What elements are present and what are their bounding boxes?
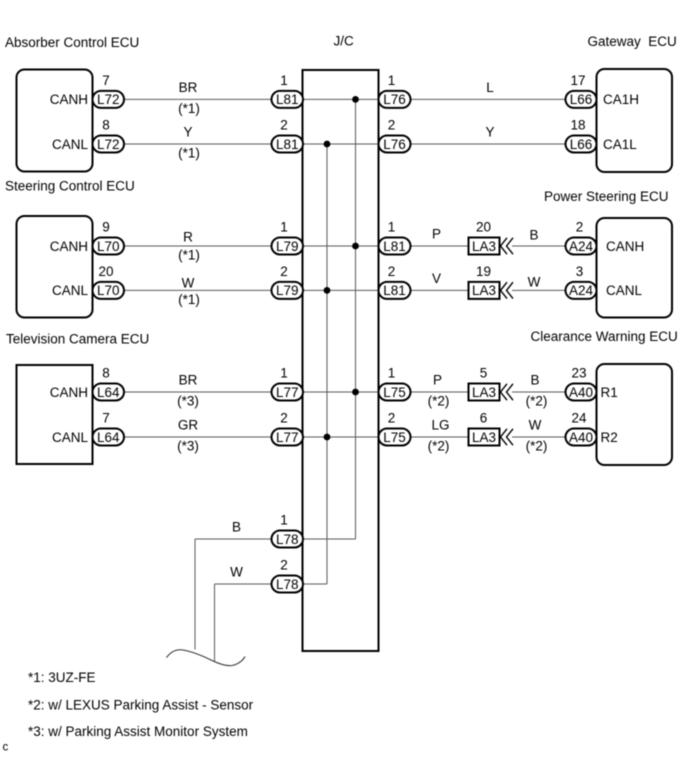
connector L81 pin 2 (J/C right) xyxy=(379,282,411,299)
svg-text:*1: 3UZ-FE: *1: 3UZ-FE xyxy=(28,670,96,685)
svg-text:L77: L77 xyxy=(276,385,299,400)
wire B: LA3-5 to Clearance A40-23 xyxy=(512,391,566,393)
svg-text:CANL: CANL xyxy=(52,430,89,445)
wire BR: Absorber L72-7 to J/C L81-1 xyxy=(124,98,272,100)
svg-text:CANL: CANL xyxy=(52,137,89,152)
ECU box: Clearance Warning ECU xyxy=(597,364,673,465)
wire B: branch to J/C L78-1 xyxy=(195,538,272,540)
svg-text:B: B xyxy=(529,228,538,243)
ECU box: Power Steering ECU xyxy=(597,218,673,318)
connector L72 pin 7 xyxy=(93,91,125,108)
svg-text:CA1L: CA1L xyxy=(603,137,637,152)
svg-text:R1: R1 xyxy=(601,385,618,400)
svg-text:*3: w/ Parking Assist Monitor: *3: w/ Parking Assist Monitor System xyxy=(28,724,248,739)
svg-text:B: B xyxy=(232,520,241,535)
connector LA3 pin 20 with chevron xyxy=(469,238,500,255)
wire W: branch to J/C L78-2 xyxy=(215,583,272,585)
svg-text:1: 1 xyxy=(280,73,288,88)
ECU box: Television Camera ECU xyxy=(17,365,93,464)
svg-text:L79: L79 xyxy=(276,239,299,254)
svg-text:R: R xyxy=(183,230,193,245)
svg-text:8: 8 xyxy=(102,366,110,381)
svg-text:L79: L79 xyxy=(276,283,299,298)
wire: CANH bus line inside J/C xyxy=(355,99,357,539)
node: CANH junction row 1 xyxy=(352,96,359,103)
wire: J/C internal row 1 CANH xyxy=(303,98,379,100)
svg-text:2: 2 xyxy=(280,264,288,279)
svg-text:(*2): (*2) xyxy=(526,394,548,409)
connector L75 pin 2 (J/C right) xyxy=(379,429,411,446)
svg-text:(*1): (*1) xyxy=(178,248,200,263)
svg-text:1: 1 xyxy=(280,366,288,381)
svg-text:P: P xyxy=(432,227,441,242)
svg-text:19: 19 xyxy=(476,264,491,279)
wire P: J/C L75-1 to LA3-5 xyxy=(411,391,469,393)
wire P: J/C L81-1 to LA3-20 xyxy=(411,245,469,247)
svg-text:L81: L81 xyxy=(276,137,299,152)
svg-text:2: 2 xyxy=(388,118,396,133)
svg-text:c: c xyxy=(3,742,9,754)
svg-text:1: 1 xyxy=(388,220,396,235)
wire BR: TV Camera L64-8 to J/C L77-1 xyxy=(124,391,272,393)
wire L: J/C L76-1 to Gateway L66-17 xyxy=(411,98,566,100)
svg-text:LA3: LA3 xyxy=(472,430,496,445)
svg-text:(*1): (*1) xyxy=(178,292,200,307)
svg-text:(*1): (*1) xyxy=(178,146,200,161)
svg-text:9: 9 xyxy=(102,220,110,235)
svg-text:1: 1 xyxy=(280,220,288,235)
svg-text:W: W xyxy=(182,275,195,290)
svg-text:(*3): (*3) xyxy=(177,394,199,409)
svg-text:2: 2 xyxy=(280,118,288,133)
wire Y: J/C L76-2 to Gateway L66-18 xyxy=(411,143,566,145)
ECU box: Gateway ECU xyxy=(597,69,673,172)
svg-text:L64: L64 xyxy=(97,385,120,400)
node: CANL junction row 4 xyxy=(324,287,331,294)
connector L81 pin 2 (J/C left) xyxy=(272,136,304,153)
wire Y: Absorber L72-8 to J/C L81-2 xyxy=(124,143,272,145)
svg-text:Clearance Warning ECU: Clearance Warning ECU xyxy=(531,329,678,344)
svg-text:LA3: LA3 xyxy=(472,239,496,254)
svg-text:2: 2 xyxy=(576,220,584,235)
svg-text:GR: GR xyxy=(178,418,199,433)
wire: off-page continuation wave xyxy=(167,650,246,666)
wire: J/C internal row 6 CANL xyxy=(303,436,379,438)
svg-text:(*2): (*2) xyxy=(526,439,548,454)
wire: B branch vertical drop xyxy=(194,539,196,650)
connector A40 pin 24 xyxy=(566,429,597,446)
junction connector J/C box xyxy=(303,70,379,651)
svg-text:LG: LG xyxy=(431,418,449,433)
svg-text:CANL: CANL xyxy=(52,283,89,298)
node: CANH junction row 5 xyxy=(352,389,359,396)
connector L70 pin 9 xyxy=(93,238,125,255)
wire W: Steering L70-20 to J/C L79-2 xyxy=(124,289,272,291)
svg-text:2: 2 xyxy=(388,264,396,279)
node: CANL junction row 6 xyxy=(324,434,331,441)
svg-text:L70: L70 xyxy=(97,239,120,254)
wire: J/C internal L78-2 to CANL bus xyxy=(303,583,327,585)
ECU box: Absorber Control ECU xyxy=(17,70,93,172)
wire B: LA3-20 to Power Steering A24-2 xyxy=(512,245,566,247)
svg-text:L81: L81 xyxy=(383,239,406,254)
svg-text:Gateway ECU: Gateway ECU xyxy=(588,34,677,49)
svg-text:A24: A24 xyxy=(569,283,594,298)
svg-text:Y: Y xyxy=(183,125,192,140)
connector A24 pin 3 xyxy=(566,282,597,299)
svg-text:20: 20 xyxy=(476,220,491,235)
svg-text:W: W xyxy=(529,418,542,433)
svg-text:2: 2 xyxy=(388,411,396,426)
svg-text:Television Camera ECU: Television Camera ECU xyxy=(6,332,149,347)
wire GR: TV Camera L64-7 to J/C L77-2 xyxy=(124,436,272,438)
connector L76 pin 2 (J/C right) xyxy=(379,136,411,153)
connector L64 pin 8 xyxy=(93,384,125,401)
connector L77 pin 1 (J/C left) xyxy=(272,384,304,401)
node: CANL junction row 2 xyxy=(324,141,331,148)
wire: J/C internal row 3 CANH xyxy=(303,245,379,247)
wire W: LA3-19 to Power Steering A24-3 xyxy=(512,289,566,291)
svg-text:CANH: CANH xyxy=(606,239,644,254)
svg-text:L78: L78 xyxy=(276,532,299,547)
svg-text:LA3: LA3 xyxy=(472,283,496,298)
svg-text:CANL: CANL xyxy=(606,283,643,298)
wire: CANL bus line inside J/C xyxy=(326,144,328,584)
svg-text:L66: L66 xyxy=(570,92,593,107)
node: CANH junction row 3 xyxy=(352,243,359,250)
connector L70 pin 20 xyxy=(93,282,125,299)
connector A24 pin 2 xyxy=(566,238,597,255)
svg-text:L70: L70 xyxy=(97,283,120,298)
svg-text:(*2): (*2) xyxy=(428,394,450,409)
connector L66 pin 17 xyxy=(566,91,597,108)
connector L76 pin 1 (J/C right) xyxy=(379,91,411,108)
svg-text:7: 7 xyxy=(102,411,110,426)
connector L77 pin 2 (J/C left) xyxy=(272,429,304,446)
connector L81 pin 1 (J/C right) xyxy=(379,238,411,255)
wire: J/C internal row 4 CANL xyxy=(303,289,379,291)
svg-text:L64: L64 xyxy=(97,430,120,445)
svg-text:L81: L81 xyxy=(276,92,299,107)
svg-text:2: 2 xyxy=(280,411,288,426)
svg-text:L76: L76 xyxy=(383,137,406,152)
svg-text:6: 6 xyxy=(480,411,488,426)
svg-text:Absorber Control ECU: Absorber Control ECU xyxy=(5,35,139,50)
svg-text:5: 5 xyxy=(480,366,488,381)
svg-text:20: 20 xyxy=(98,264,113,279)
svg-text:L76: L76 xyxy=(383,92,406,107)
svg-text:P: P xyxy=(433,373,442,388)
svg-text:A24: A24 xyxy=(569,239,594,254)
svg-text:Y: Y xyxy=(485,125,494,140)
svg-text:L77: L77 xyxy=(276,430,299,445)
svg-text:W: W xyxy=(528,274,541,289)
svg-text:J/C: J/C xyxy=(334,34,355,49)
connector L79 pin 2 (J/C left) xyxy=(272,282,304,299)
svg-text:CANH: CANH xyxy=(50,385,88,400)
svg-text:L: L xyxy=(486,80,494,95)
svg-text:A40: A40 xyxy=(569,385,593,400)
connector LA3 pin 5 with chevron xyxy=(469,384,500,401)
svg-text:1: 1 xyxy=(388,73,396,88)
connector L81 pin 1 (J/C left) xyxy=(272,91,304,108)
svg-text:A40: A40 xyxy=(569,430,593,445)
svg-text:(*3): (*3) xyxy=(177,439,199,454)
svg-text:BR: BR xyxy=(179,80,198,95)
connector L79 pin 1 (J/C left) xyxy=(272,238,304,255)
svg-text:R2: R2 xyxy=(601,430,618,445)
svg-text:1: 1 xyxy=(388,366,396,381)
svg-text:2: 2 xyxy=(280,558,288,573)
svg-text:Steering Control ECU: Steering Control ECU xyxy=(5,178,135,193)
svg-text:(*2): (*2) xyxy=(428,439,450,454)
svg-text:W: W xyxy=(230,565,243,580)
svg-text:LA3: LA3 xyxy=(472,385,496,400)
svg-text:3: 3 xyxy=(576,264,584,279)
wire R: Steering L70-9 to J/C L79-1 xyxy=(124,245,272,247)
svg-text:L75: L75 xyxy=(383,430,406,445)
ECU box: Steering Control ECU xyxy=(17,216,93,318)
connector L75 pin 1 (J/C right) xyxy=(379,384,411,401)
connector L64 pin 7 xyxy=(93,429,125,446)
wire: W branch vertical drop xyxy=(214,584,216,662)
svg-text:V: V xyxy=(432,271,441,286)
connector L72 pin 8 xyxy=(93,136,125,153)
wire: J/C internal row 5 CANH xyxy=(303,391,379,393)
svg-text:CANH: CANH xyxy=(50,239,88,254)
wire LG: J/C L75-2 to LA3-6 xyxy=(411,436,469,438)
wire: J/C internal row 2 CANL xyxy=(303,143,379,145)
svg-text:Power Steering ECU: Power Steering ECU xyxy=(544,189,669,204)
connector LA3 pin 6 with chevron xyxy=(469,429,500,446)
svg-text:B: B xyxy=(530,373,539,388)
svg-text:*2: w/ LEXUS Parking Assist -: *2: w/ LEXUS Parking Assist - Sensor xyxy=(28,698,254,713)
svg-text:18: 18 xyxy=(570,118,585,133)
wire V: J/C L81-2 to LA3-19 xyxy=(411,289,469,291)
svg-text:CANH: CANH xyxy=(50,92,88,107)
svg-text:(*1): (*1) xyxy=(178,101,200,116)
svg-text:L72: L72 xyxy=(97,137,120,152)
svg-text:L72: L72 xyxy=(97,92,120,107)
svg-text:L81: L81 xyxy=(383,283,406,298)
connector LA3 pin 19 with chevron xyxy=(469,282,500,299)
connector A40 pin 23 xyxy=(566,384,597,401)
svg-text:1: 1 xyxy=(280,513,288,528)
connector L78 pin 2 (J/C left) xyxy=(272,576,304,593)
svg-text:8: 8 xyxy=(102,118,110,133)
svg-text:17: 17 xyxy=(570,73,585,88)
connector L66 pin 18 xyxy=(566,136,597,153)
svg-text:24: 24 xyxy=(571,411,587,426)
svg-text:L78: L78 xyxy=(276,577,299,592)
wire: J/C internal L78-1 to CANH bus xyxy=(303,538,356,540)
wire W: LA3-6 to Clearance A40-24 xyxy=(512,436,566,438)
svg-text:23: 23 xyxy=(571,366,586,381)
svg-text:L66: L66 xyxy=(570,137,593,152)
svg-text:CA1H: CA1H xyxy=(603,92,639,107)
svg-text:BR: BR xyxy=(179,373,198,388)
svg-text:L75: L75 xyxy=(383,385,406,400)
connector L78 pin 1 (J/C left) xyxy=(272,531,304,548)
svg-text:7: 7 xyxy=(102,73,110,88)
